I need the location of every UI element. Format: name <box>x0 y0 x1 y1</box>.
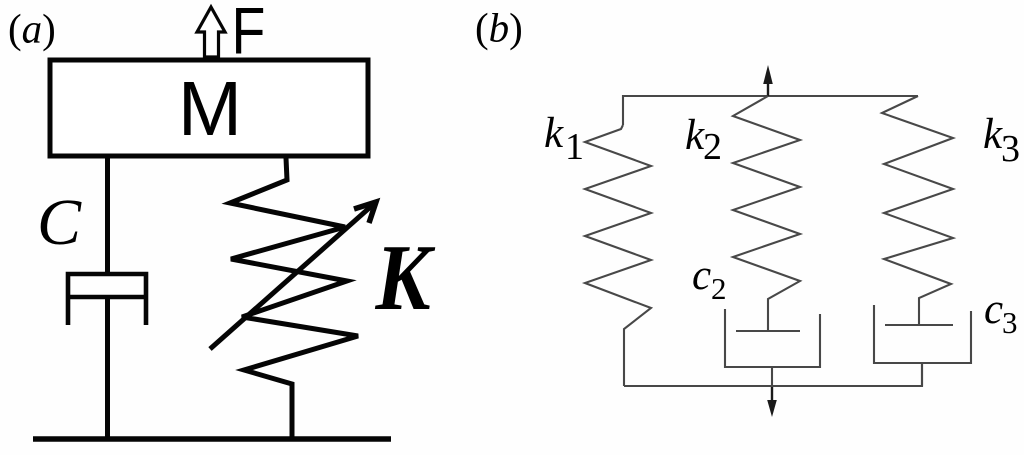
svg-text:K: K <box>375 226 436 330</box>
svg-text:3: 3 <box>1002 305 1018 340</box>
svg-text:k: k <box>685 112 705 159</box>
spring k2 <box>733 96 800 331</box>
svg-text:F: F <box>232 0 266 68</box>
svg-text:M: M <box>178 66 242 152</box>
damper C body <box>68 274 146 325</box>
damper rod lower <box>105 297 110 441</box>
top arrow (b) <box>767 76 769 96</box>
svg-text:(b): (b) <box>475 5 523 51</box>
damper c3 cup <box>874 305 971 363</box>
svg-text:C: C <box>37 186 82 259</box>
svg-text:(a): (a) <box>8 6 56 52</box>
variable-spring arrow through K <box>210 202 376 349</box>
svg-text:3: 3 <box>1001 128 1020 170</box>
svg-text:1: 1 <box>565 126 584 168</box>
svg-text:2: 2 <box>703 126 722 168</box>
damper c2 cup <box>725 309 820 367</box>
spring k1 <box>585 125 651 386</box>
svg-text:c: c <box>692 252 711 299</box>
svg-text:k: k <box>983 111 1003 158</box>
mass M box <box>50 60 368 156</box>
damper c2 piston plate <box>736 330 800 332</box>
svg-text:k: k <box>544 110 564 157</box>
bottom rail (b) <box>624 363 922 386</box>
damper rod upper <box>105 156 110 276</box>
svg-text:2: 2 <box>711 271 727 306</box>
force arrow F (hollow block arrow) <box>197 7 225 57</box>
damper c2 lower rod <box>771 367 773 387</box>
spring k3 <box>882 96 953 325</box>
top rail (b) <box>623 96 918 125</box>
spring K zigzag <box>230 158 358 440</box>
svg-text:c: c <box>984 286 1003 333</box>
damper c3 piston plate <box>885 324 953 326</box>
ground line <box>33 436 391 442</box>
damper c3 lower rod <box>921 363 923 386</box>
bottom arrow (b) <box>771 387 773 408</box>
